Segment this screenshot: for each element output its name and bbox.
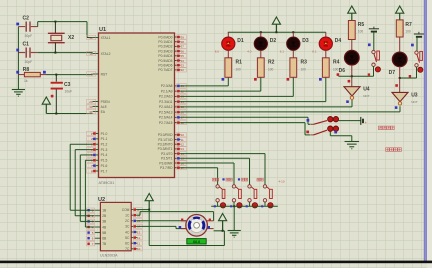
wire EA pull-up [46, 113, 92, 115]
svg-text:P0.5/AD5: P0.5/AD5 [158, 59, 172, 63]
svg-text:R2: R2 [268, 60, 275, 66]
svg-text:ULN2003A: ULN2003A [100, 253, 118, 257]
U1 pin P1.2 (3) [93, 143, 99, 145]
wire LED anode rail [228, 31, 326, 33]
svg-text:R7: R7 [405, 22, 412, 28]
wire U2 3C to motor [137, 225, 176, 227]
node U3 output state square [395, 106, 398, 109]
svg-text:U2: U2 [98, 197, 105, 203]
resistor R7 [396, 20, 403, 37]
ground (limit switches) [351, 141, 353, 143]
U1 pin P1.3 (4) [93, 149, 99, 151]
window right margin [427, 0, 432, 268]
node junction X2 top [54, 21, 56, 23]
wire P2.5 to U3 output [180, 111, 400, 113]
U2 pin 3B (3) [94, 220, 100, 222]
U1 pin P3.1/TXD (11) [175, 139, 181, 141]
svg-text:4-10: 4-10 [279, 180, 285, 184]
svg-text:100: 100 [268, 67, 274, 71]
label door-close limit [386, 148, 390, 152]
U1 pin P0.0/AD0 (39) [175, 36, 181, 38]
U1 pin P3.3/INT1 (13) [175, 148, 181, 150]
wire P3.7 to button K1 [180, 167, 217, 169]
svg-text:NOT: NOT [363, 94, 370, 98]
U1 pin P1.0 (1) [93, 133, 99, 135]
node D7 wire state square [409, 75, 411, 77]
U1 pin EA (31) [93, 111, 99, 113]
wire D7 to U3 input [399, 78, 401, 92]
svg-text:33: 33 [181, 63, 185, 67]
svg-text:AT89C51: AT89C51 [99, 181, 115, 185]
motor M1 (stepper) [181, 220, 187, 222]
op-amp U3 (NOT gate) [392, 92, 408, 101]
motor speed display [187, 239, 206, 244]
svg-text:P1.7: P1.7 [101, 169, 108, 173]
svg-text:1C: 1C [125, 214, 130, 218]
svg-text:COM: COM [122, 208, 130, 212]
switch SW4 (by D7) [415, 51, 418, 54]
node junction D6 [351, 75, 353, 77]
wire P2.2 to R3 [180, 95, 293, 97]
wire P2.4 to U4 output [180, 106, 352, 108]
svg-text:P0.6/AD6: P0.6/AD6 [158, 64, 172, 68]
switch SW1 (door-open limit) [311, 123, 314, 125]
svg-text:P3.2/INT0: P3.2/INT0 [158, 143, 173, 147]
ground (left rail) [17, 89, 19, 91]
U1 pin P3.4/T0 (14) [175, 153, 181, 155]
svg-text:100: 100 [236, 67, 242, 71]
power +5V (LED rail) [272, 17, 280, 24]
capacitor C1 [18, 52, 25, 54]
capacitor C3 [55, 75, 57, 82]
U1 pin P0.4/AD4 (35) [175, 55, 181, 57]
U1 pin P0.7/AD7 (32) [175, 69, 181, 71]
svg-text:P3.5/T1: P3.5/T1 [161, 157, 173, 161]
capacitor C2 [18, 26, 25, 28]
resistor R5 [348, 21, 355, 40]
svg-text:4C: 4C [125, 230, 130, 234]
svg-text:R5: R5 [358, 22, 365, 28]
wire rail to ground [233, 206, 235, 230]
svg-text:39: 39 [181, 35, 185, 39]
annotation button K4 [257, 178, 260, 181]
svg-text:P1.6: P1.6 [101, 164, 108, 168]
wire C2 to XTAL1 [37, 22, 39, 27]
svg-text:P2.6/A14: P2.6/A14 [159, 116, 173, 120]
U1 pin P3.0/RXD (10) [175, 134, 181, 136]
U2 pin 4B (4) [94, 226, 100, 228]
U2 pin 6B (6) [94, 237, 100, 239]
power +5V (R7) [396, 6, 404, 13]
U2 pin 2B (2) [94, 215, 100, 217]
svg-text:P0.1/AD1: P0.1/AD1 [158, 40, 172, 44]
svg-text:30pF: 30pF [25, 34, 33, 38]
svg-text:38: 38 [181, 40, 185, 44]
wire P3.4 to button K4 [180, 153, 265, 155]
node U3 input state square [395, 84, 398, 87]
svg-text:D6: D6 [339, 68, 346, 74]
power +5V (U2 COM) [145, 194, 153, 201]
svg-text:100: 100 [405, 29, 411, 33]
U1 pin PSEN (29) [93, 101, 99, 103]
U1 pin P0.2/AD2 (37) [175, 45, 181, 47]
U1 pin P0.5/AD5 (34) [175, 60, 181, 62]
U2 pin 5C (12) [131, 237, 137, 239]
svg-text:P1.1: P1.1 [101, 137, 108, 141]
svg-text:11: 11 [181, 138, 184, 142]
U1 pin P0.3/AD3 (36) [175, 50, 181, 52]
U2 pin COM (9) [131, 209, 137, 211]
power +5V (motor) [219, 214, 227, 221]
svg-text:30: 30 [89, 105, 93, 109]
svg-text:P3.7/RD: P3.7/RD [160, 166, 173, 170]
resistor R3 [290, 58, 297, 78]
node D6 wire right state square [368, 73, 370, 75]
svg-text:30pF: 30pF [25, 60, 33, 64]
wire D6 to U4 input [351, 76, 353, 86]
resistor R2 [257, 58, 264, 78]
svg-text:P2.2/A10: P2.2/A10 [159, 95, 173, 99]
node SW1 pole state square [307, 119, 310, 122]
U2 pin 1B (1) [94, 209, 100, 211]
svg-text:ALE: ALE [101, 105, 108, 109]
node junction COM [148, 209, 150, 211]
node SW3 top state square [368, 43, 371, 46]
battery B1 [369, 28, 379, 30]
node C1 left state square [16, 49, 19, 52]
U1 pin P3.6/WR (16) [175, 162, 181, 164]
svg-text:P0.2/AD2: P0.2/AD2 [158, 45, 172, 49]
LED D4 [325, 32, 327, 37]
svg-text:88.8: 88.8 [193, 240, 200, 244]
svg-text:32: 32 [181, 68, 185, 72]
window bottom border [0, 261, 432, 264]
node junction D7 [399, 77, 401, 79]
svg-text:11: 11 [137, 241, 140, 245]
svg-text:P2.3/A11: P2.3/A11 [159, 100, 172, 104]
svg-text:R1: R1 [236, 60, 243, 66]
U1 pin P0.1/AD1 (38) [175, 41, 181, 43]
svg-text:P1.5: P1.5 [101, 159, 108, 163]
annotation button K2 [222, 178, 224, 180]
wire B1 to SW3 [373, 32, 375, 51]
U1 pin P2.5/A13 (26) [175, 111, 181, 113]
svg-text:13: 13 [137, 230, 141, 234]
svg-text:10: 10 [137, 247, 141, 251]
wire P1.2 to U2 1B [70, 143, 92, 145]
svg-text:P3.6/WR: P3.6/WR [159, 161, 173, 165]
wire D6 node [338, 75, 373, 77]
button K2 [232, 185, 235, 188]
wire P2.3 to R4 [180, 101, 325, 103]
svg-text:U4: U4 [363, 86, 370, 92]
svg-text:1k: 1k [24, 79, 28, 83]
svg-text:36: 36 [181, 49, 185, 53]
wire +5V to motor common [148, 210, 150, 246]
node U4 output state square [346, 100, 349, 103]
op-amp U4 (NOT gate) [344, 87, 360, 96]
svg-text:10: 10 [181, 133, 185, 137]
wire C1 to XTAL2 [38, 52, 93, 54]
wire SW1 to B3 [339, 120, 361, 122]
resistor R8 [18, 74, 24, 76]
U1 pin P2.6/A14 (27) [175, 116, 181, 118]
svg-text:3C: 3C [125, 225, 130, 229]
svg-text:12: 12 [137, 236, 141, 240]
switch SW2 (door-close limit) [311, 134, 314, 136]
U1 pin RST (9) [93, 73, 99, 75]
U1 pin P1.1 (2) [93, 138, 99, 140]
power +5V (R5) [348, 6, 356, 13]
resistor R4 [322, 58, 329, 78]
node junction LED rail [275, 31, 277, 33]
node junction motor +5V [222, 230, 224, 232]
ground (buttons) [233, 230, 235, 232]
svg-text:P1.2: P1.2 [101, 143, 108, 147]
svg-text:P2.0/A8: P2.0/A8 [161, 84, 173, 88]
svg-text:D2: D2 [270, 38, 277, 44]
svg-text:4.0: 4.0 [247, 50, 252, 54]
wire P3.5 to button K3 [180, 157, 249, 159]
U1 pin P2.0/A8 (21) [175, 85, 181, 87]
U1 pin P2.3/A11 (24) [175, 101, 181, 103]
svg-text:RST: RST [101, 72, 108, 76]
node motor pin squares [181, 219, 183, 221]
wire U2 1C to motor [137, 214, 140, 216]
svg-text:P2.5/A13: P2.5/A13 [159, 110, 173, 114]
svg-text:5C: 5C [125, 236, 130, 240]
svg-text:34: 34 [181, 59, 185, 63]
svg-text:P0.3/AD3: P0.3/AD3 [158, 49, 172, 53]
wire P3.6 to button K2 [180, 162, 234, 164]
U1 pin P1.5 (6) [93, 159, 99, 161]
svg-text:10uF: 10uF [65, 90, 73, 94]
node U4 input state square [348, 80, 351, 83]
LED D2 [260, 32, 262, 37]
U1 pin P2.4/A12 (25) [175, 106, 181, 108]
svg-text:P3.1/TXD: P3.1/TXD [158, 138, 173, 142]
node R8 left state square [16, 71, 19, 74]
label door-open limit [378, 126, 382, 130]
svg-text:8.1: 8.1 [312, 50, 317, 54]
battery B2 [414, 33, 424, 35]
svg-text:C3: C3 [64, 82, 71, 88]
wire P2.0 to R1 [180, 85, 228, 87]
wire D7 node [400, 77, 417, 79]
U2 pin 1C (16) [131, 214, 137, 216]
node R3 riser state square [287, 78, 290, 81]
svg-text:2C: 2C [125, 219, 130, 223]
U1 pin P3.7/RD (17) [175, 167, 181, 169]
svg-text:NOT: NOT [411, 100, 418, 104]
wire B2 to SW4 [416, 37, 418, 51]
node junction C3 top [55, 74, 57, 76]
svg-text:P3.0/RXD: P3.0/RXD [158, 133, 173, 137]
left ground rail wire [17, 27, 19, 90]
LED D6 [351, 40, 353, 51]
svg-text:29: 29 [89, 100, 93, 104]
U1 pin P1.7 (8) [93, 170, 99, 172]
svg-text:P0.7/AD7: P0.7/AD7 [158, 68, 172, 72]
annotation button K3 [238, 178, 240, 180]
U1 pin XTAL2 (18) [93, 53, 99, 55]
svg-text:D3: D3 [302, 38, 309, 44]
wire P2.7 to switch SW2 [180, 122, 305, 124]
crystal X2 [54, 22, 56, 34]
wire P2.1 to R2 [180, 90, 260, 92]
U1 pin P2.1/A9 (22) [175, 90, 181, 92]
svg-text:100: 100 [358, 30, 364, 34]
svg-text:D4: D4 [335, 38, 342, 44]
node C3 state square [51, 95, 54, 98]
svg-text:P3.3/INT1: P3.3/INT1 [158, 147, 173, 151]
wire SW2 to ground [329, 131, 331, 135]
wire button ground rail [211, 205, 278, 207]
U2 pin 4C (13) [131, 231, 137, 233]
window right border [424, 0, 427, 261]
button K1 [216, 185, 219, 188]
node R8 right state square [43, 71, 46, 74]
svg-text:6C: 6C [125, 242, 130, 246]
node C2 left state square [16, 23, 19, 26]
U1 pin ALE (30) [93, 106, 99, 108]
U1 pin P1.6 (7) [93, 165, 99, 167]
power +5V (EA pull-up) [42, 97, 50, 104]
wire R8 to RST [46, 74, 93, 76]
U1 pin P0.6/AD6 (33) [175, 64, 181, 66]
svg-text:P3.4/T0: P3.4/T0 [161, 152, 173, 156]
U2 pin 7C (10) [131, 248, 137, 250]
wire COM to +5V [137, 209, 149, 211]
op chip U1 body [99, 33, 175, 178]
button K3 [248, 185, 251, 188]
U1 pin P1.4 (5) [93, 154, 99, 156]
node junction button rail [233, 205, 235, 207]
node R2 riser state square [254, 78, 257, 81]
node rail state arrows [214, 205, 216, 207]
svg-text:13: 13 [181, 147, 185, 151]
node R4 riser state square [319, 78, 322, 81]
U1 pin P3.5/T1 (15) [175, 157, 181, 159]
svg-text:P1.4: P1.4 [101, 153, 108, 157]
U2 pin 7B (7) [94, 243, 100, 245]
wire P1.4 to U2 3B [80, 154, 92, 156]
node SW2 contact state square [334, 131, 337, 134]
U1 pin P3.2/INT0 (12) [175, 143, 181, 145]
switch SW3 (by D6) [372, 50, 375, 53]
svg-text:C2: C2 [23, 15, 30, 21]
U2 pin 2C (15) [131, 220, 137, 222]
node R1 riser state square [222, 78, 225, 81]
svg-text:35: 35 [181, 54, 185, 58]
svg-text:8.0: 8.0 [215, 50, 220, 54]
wire P2.6 to switch SW1 [180, 116, 308, 118]
battery B3 [360, 117, 362, 125]
resistor R1 [225, 58, 232, 78]
node SW4 top state square [411, 44, 414, 47]
svg-text:P2.4/A12: P2.4/A12 [159, 105, 173, 109]
svg-text:31: 31 [89, 110, 93, 114]
svg-text:PSEN: PSEN [101, 100, 111, 104]
svg-text:+: + [365, 121, 367, 125]
U1 pin P2.2/A10 (23) [175, 95, 181, 97]
svg-text:X2: X2 [68, 35, 74, 41]
svg-text:37: 37 [181, 45, 185, 49]
U1 pin XTAL1 (19) [93, 37, 99, 39]
wire P1.3 to U2 2B [75, 149, 92, 151]
svg-text:U1: U1 [99, 27, 106, 33]
svg-text:D1: D1 [237, 38, 244, 44]
LED D1 [227, 32, 229, 37]
svg-text:P1.3: P1.3 [101, 148, 108, 152]
annotation button K1 [213, 178, 216, 181]
svg-text:P2.7/A15: P2.7/A15 [159, 121, 173, 125]
node junction EA wire [55, 113, 57, 115]
wire P1.5 to U2 4B [85, 159, 92, 161]
node SW2 pole state square [306, 131, 309, 134]
svg-text:R8: R8 [23, 67, 30, 73]
svg-text:P2.1/A9: P2.1/A9 [161, 89, 173, 93]
U1 pin P2.7/A15 (28) [175, 122, 181, 124]
svg-text:C1: C1 [23, 41, 30, 47]
svg-text:R4: R4 [333, 60, 340, 66]
U2 pin 6C (11) [131, 242, 137, 244]
svg-text:XTAL2: XTAL2 [101, 52, 111, 56]
svg-text:U3: U3 [411, 92, 418, 98]
svg-text:6.1: 6.1 [280, 50, 285, 54]
svg-text:R3: R3 [301, 60, 308, 66]
U2 pin 3C (14) [131, 225, 137, 227]
U2 pin 5B (5) [94, 232, 100, 234]
wire U2 2C to motor [137, 220, 186, 222]
chip U2 body [100, 202, 131, 250]
svg-text:18: 18 [89, 52, 93, 56]
node D6 wire left state square [337, 73, 340, 76]
svg-text:12: 12 [181, 142, 185, 146]
button K4 [263, 185, 266, 188]
svg-text:P0.0/AD0: P0.0/AD0 [158, 35, 172, 39]
svg-text:7C: 7C [125, 247, 130, 251]
svg-text:100: 100 [301, 67, 307, 71]
svg-text:P0.4/AD4: P0.4/AD4 [158, 54, 172, 58]
LED D3 [292, 32, 294, 37]
svg-text:P1.0: P1.0 [101, 132, 108, 136]
svg-text:XTAL1: XTAL1 [101, 36, 111, 40]
svg-text:D7: D7 [389, 70, 396, 76]
LED D7 [399, 37, 401, 52]
svg-text:19: 19 [89, 36, 93, 40]
node junction X2 bottom [54, 52, 56, 54]
